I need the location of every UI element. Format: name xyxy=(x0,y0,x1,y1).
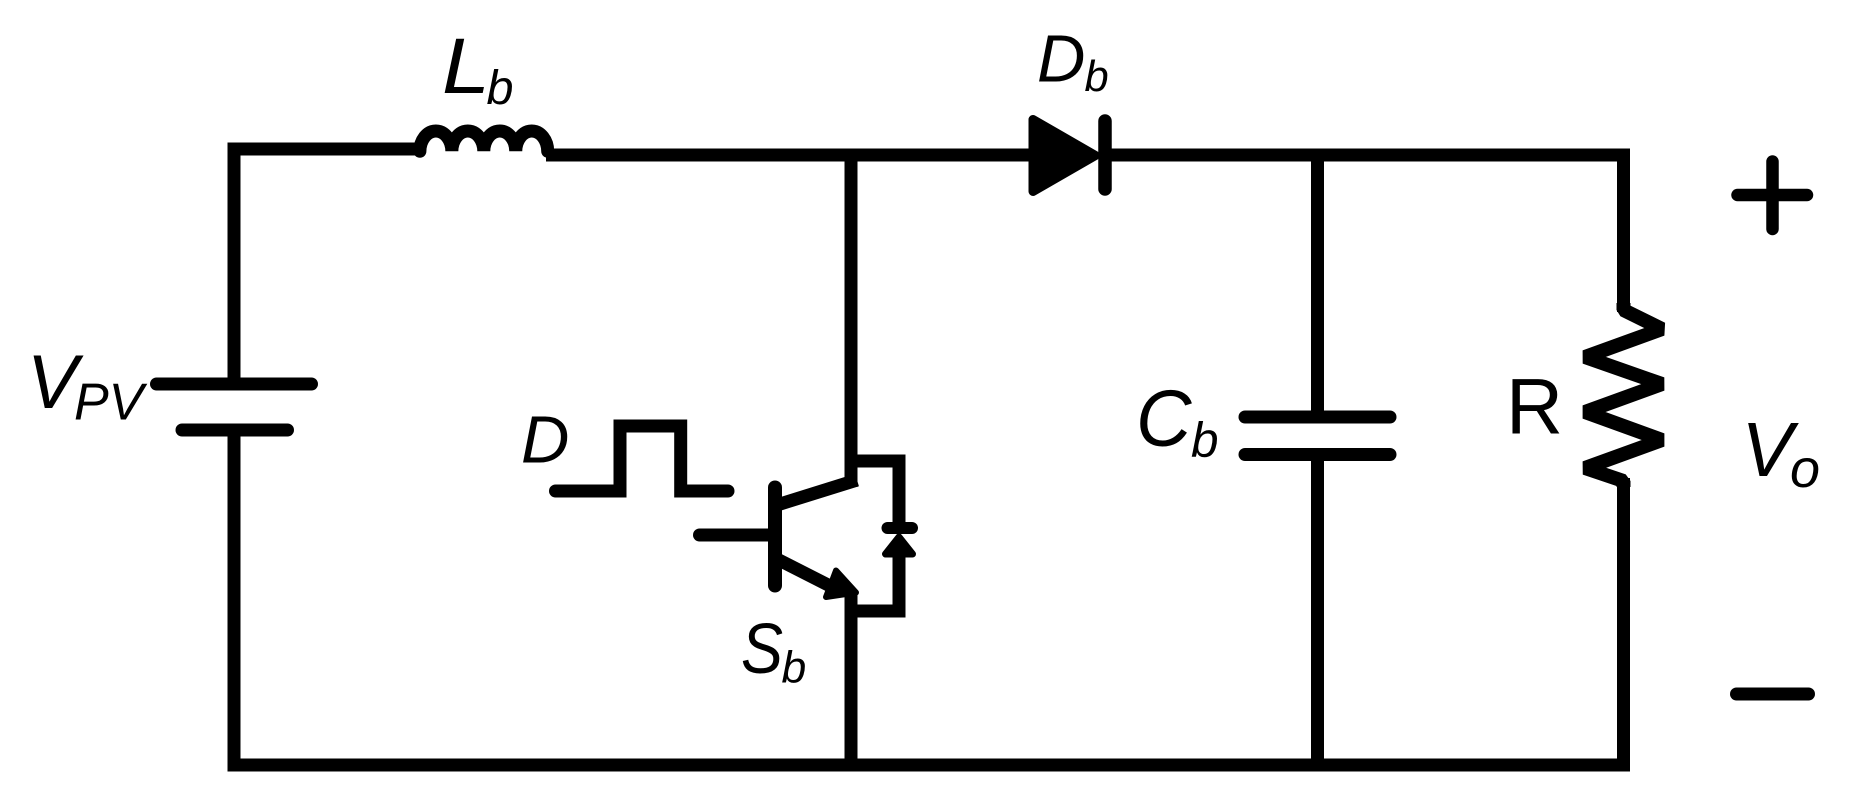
wire right vertical lower (resistor to bottom corner) xyxy=(1617,478,1630,765)
svg-text:D: D xyxy=(521,403,569,478)
wire C_b vertical lower xyxy=(1311,455,1324,766)
transistor S_b base lead xyxy=(700,529,776,542)
battery V_PV bottom plate xyxy=(182,424,288,437)
wire S_b collector vertical xyxy=(845,155,858,487)
minus sign xyxy=(1737,688,1809,701)
diode D_b triangle xyxy=(1033,120,1096,192)
antiparallel diode cathode bar xyxy=(888,522,913,534)
wire C_b vertical upper xyxy=(1311,155,1324,417)
transistor S_b emitter arrowhead xyxy=(826,571,856,598)
bottom wire xyxy=(228,759,1631,772)
capacitor C_b bottom plate xyxy=(1245,448,1390,461)
svg-text:b: b xyxy=(1191,413,1219,468)
wire antiparallel diode lower + bottom tee to emitter xyxy=(849,556,899,611)
plus sign xyxy=(1738,162,1808,230)
transistor S_b base bar xyxy=(768,488,782,586)
svg-text:b: b xyxy=(487,61,514,115)
antiparallel diode triangle xyxy=(886,537,913,554)
svg-text:o: o xyxy=(1790,439,1820,499)
capacitor C_b top plate xyxy=(1245,411,1390,424)
wire S_b emitter vertical down xyxy=(845,594,858,765)
resistor R zigzag xyxy=(1585,303,1662,487)
svg-text:PV: PV xyxy=(74,374,148,432)
svg-text:L: L xyxy=(442,21,490,110)
transistor S_b emitter diagonal xyxy=(777,559,836,589)
svg-text:R: R xyxy=(1506,362,1563,451)
wire top-left horizontal + left vertical (Vpv to inductor) xyxy=(234,149,417,384)
svg-text:b: b xyxy=(1085,53,1109,101)
wire top right (diode to right corner) xyxy=(1105,149,1630,162)
inductor L_b xyxy=(420,131,548,151)
svg-text:b: b xyxy=(782,644,807,693)
svg-text:C: C xyxy=(1136,374,1193,463)
svg-text:S: S xyxy=(741,610,783,689)
battery V_PV top plate xyxy=(157,378,312,391)
svg-text:D: D xyxy=(1037,22,1085,97)
wire left vertical below battery xyxy=(228,430,241,765)
pulse waveform D xyxy=(556,426,729,491)
wire collector tee to antiparallel diode branch xyxy=(851,461,899,525)
wire top middle (inductor to diode) xyxy=(546,149,1035,162)
wire right vertical upper (corner to resistor) xyxy=(1617,149,1630,312)
transistor S_b collector diagonal xyxy=(777,480,857,505)
diode D_b cathode bar xyxy=(1098,121,1112,189)
